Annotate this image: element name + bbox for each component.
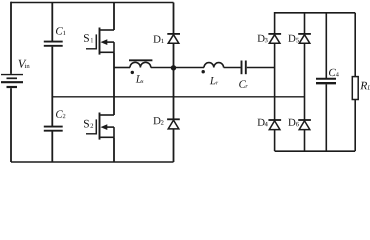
wire C-column top (51, 3, 53, 42)
wire C-column middle (51, 47, 53, 126)
wire D1 column top (173, 3, 175, 34)
wire D2 anode to bottom rail (173, 129, 175, 162)
wire D4 anode to bridge bottom rail (274, 130, 276, 151)
wire bottom rail (11, 161, 174, 163)
label D5 (288, 35, 299, 43)
resistor RL (352, 77, 358, 100)
wire Lr to Cr (224, 67, 241, 69)
wire D5 column top (304, 12, 306, 34)
label D6 (288, 119, 299, 127)
diode D1 (167, 34, 180, 43)
wire RL column bottom (354, 100, 356, 152)
inductor Lr (202, 63, 224, 74)
wire D3/D4 column middle (274, 43, 276, 120)
wire C4 column top (325, 13, 327, 78)
wire top rail (Vin+ to D1 column) (11, 2, 174, 4)
capacitor C4 (316, 79, 336, 84)
wire midpoint to Ls (114, 67, 130, 69)
label C4 (329, 69, 339, 77)
transistor S1 (86, 28, 114, 55)
label C1 (56, 27, 65, 35)
capacitor C2 (44, 127, 63, 131)
capacitor C1 (44, 42, 63, 46)
label Lr (210, 77, 218, 85)
wire S1 drain to top rail (113, 3, 115, 31)
wire C4 column bottom (325, 84, 327, 151)
wire Ls to node A (151, 67, 174, 69)
wire mid horizontal link (C1/C2 midpoint to D5/D6 leg) (52, 96, 304, 98)
label S2 (84, 120, 93, 128)
label D3 (258, 35, 268, 43)
wire S2 source to bottom rail (113, 137, 115, 162)
node A junction dot (171, 65, 176, 70)
wire Cr to bridge left leg (247, 67, 275, 69)
label D2 (153, 117, 163, 125)
capacitor Cr (242, 61, 246, 75)
wire S1 source to S2 drain (through midpoint) (113, 52, 115, 115)
label D4 (258, 119, 268, 127)
label Vin (18, 60, 29, 68)
wire bridge top rail (275, 12, 356, 14)
battery Vin (1, 75, 23, 87)
wire RL column top (354, 13, 356, 77)
wire node A to Lr (174, 67, 205, 69)
transistor S2 (86, 113, 114, 140)
wire left vertical lower (10, 88, 12, 162)
wire D6 anode to bridge bottom rail (304, 130, 306, 151)
wire D3 column top (274, 12, 276, 34)
wire C-column bottom (51, 132, 53, 163)
label Ls (136, 75, 144, 83)
wire D1 anode to node A (173, 43, 175, 67)
diode D5 (298, 34, 311, 43)
diode D6 (298, 120, 311, 130)
diode D3 (268, 34, 281, 43)
diode D2 (167, 119, 180, 129)
wire bridge bottom rail (275, 150, 356, 152)
label C2 (56, 110, 65, 118)
label Cr (239, 80, 248, 88)
wire left vertical upper (10, 2, 12, 74)
wire node A to D2 (173, 68, 175, 120)
label S1 (84, 34, 93, 42)
label D1 (153, 36, 163, 44)
diode D4 (268, 120, 281, 130)
label RL (360, 82, 370, 90)
inductor Ls (129, 60, 152, 74)
wire D5/D6 column middle (304, 43, 306, 120)
